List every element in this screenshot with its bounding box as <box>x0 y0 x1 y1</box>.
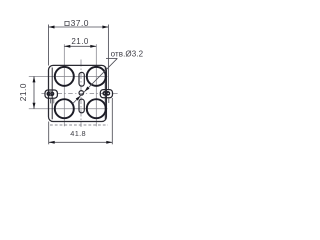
svg-text:отв.Ø3.2: отв.Ø3.2 <box>111 49 144 58</box>
leader diagonal line <box>73 58 118 103</box>
arrow 37 right <box>102 26 108 29</box>
tab left slot <box>47 92 54 96</box>
svg-text:37.0: 37.0 <box>71 18 89 28</box>
centerline middle row (y=93.5) <box>41 93 44 95</box>
body inner edge left <box>51 68 53 120</box>
leader shelf under hole label <box>106 57 117 59</box>
svg-text:21.0: 21.0 <box>18 83 28 101</box>
arrow 21 down <box>33 103 36 109</box>
centerline column right (x=96.3) <box>95 44 97 126</box>
hole bottom-left <box>55 99 74 118</box>
tab left outline <box>45 90 57 98</box>
leader arrow upper <box>85 87 90 92</box>
hidden dashed line below body <box>50 124 108 126</box>
centerline row top (y=76.1) <box>29 75 108 77</box>
body inner edge right <box>104 68 106 120</box>
centerline central vertical (x=81) <box>80 60 82 128</box>
arrow 41.8 right <box>106 141 112 144</box>
hole top-right <box>87 67 106 86</box>
hole top-left <box>55 67 74 86</box>
dimension 21.0 left vertical line <box>33 76 35 108</box>
dimension 41.8 line <box>49 141 113 143</box>
tab right outline <box>100 90 112 98</box>
extension line right upper (x=108.4) <box>107 25 109 90</box>
svg-text:21.0: 21.0 <box>71 37 88 46</box>
arrow 41.8 left <box>49 141 55 144</box>
leader arrow lower <box>76 96 81 101</box>
extension line right lower (x=112.3) <box>111 98 113 144</box>
extension line left lower (x=48.7) <box>48 122 50 145</box>
tab right slot <box>103 92 110 96</box>
center hole <box>79 91 84 96</box>
tab left hidden lines below <box>49 98 51 103</box>
arrow 21 left <box>64 45 70 48</box>
centerline column left (x=64.3) <box>63 44 65 126</box>
dimension 37.0 line <box>49 26 109 28</box>
slot top <box>79 72 84 86</box>
tab right slot end dots <box>103 92 106 95</box>
label square 37.0 <box>65 21 69 25</box>
arrow 21 up <box>33 76 36 82</box>
arrow 37 left <box>49 26 55 29</box>
dimension 21.0 top line <box>64 45 96 47</box>
hole bottom-right <box>87 99 106 118</box>
arrow 21 right <box>90 45 96 48</box>
body outline rounded square <box>49 65 107 121</box>
tab left slot end dots <box>47 93 50 96</box>
tab right hidden lines below <box>108 98 110 103</box>
slot bottom <box>79 99 84 113</box>
svg-text:41.8: 41.8 <box>70 129 86 138</box>
centerline row bottom (y=109) <box>29 108 108 110</box>
extension line left long (x=48.5) <box>48 25 50 66</box>
